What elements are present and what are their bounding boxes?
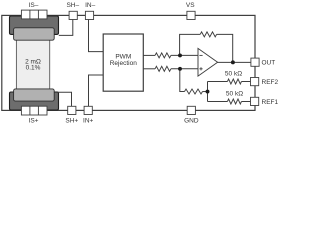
svg-text:IN+: IN+ [83, 117, 94, 124]
pin IN+ (bottom) [84, 106, 92, 114]
device boundary box [2, 15, 255, 110]
svg-text:SH–: SH– [66, 2, 79, 9]
pin VS (top) [187, 11, 195, 19]
svg-text:IS+: IS+ [29, 118, 39, 125]
svg-text:REF1: REF1 [262, 99, 279, 106]
wire op-amp output to OUT pin [218, 61, 251, 63]
pin GND (bottom) [187, 106, 195, 114]
svg-text:0.1%: 0.1% [26, 65, 41, 72]
wire feedback right vertical to output [217, 34, 233, 62]
shunt resistor RS element body (2 mOhm 0.1%) [16, 34, 49, 95]
wire non-inverting node down to R2 [180, 69, 185, 92]
resistor R3 (inverting input) [155, 53, 171, 58]
node divider junction [206, 90, 210, 94]
wire R3 to op-amp inverting input [171, 54, 198, 56]
pin SH- (top) [69, 11, 77, 19]
pin SH+ (bottom) [68, 106, 76, 114]
shunt resistor RS top pad (IS- terminal) [10, 16, 59, 34]
wire PWM block to R1 (non-inverting path) [143, 68, 155, 70]
wire divider to 50k REF1 resistor [208, 101, 228, 103]
wire divider to 50k REF2 resistor [208, 81, 228, 83]
svg-text:SH+: SH+ [65, 117, 78, 124]
IS+ pin boxes [21, 106, 47, 115]
op-amp plus sign [199, 67, 202, 70]
svg-text:VS: VS [186, 2, 195, 9]
resistor R1 (non-inverting input) [155, 66, 171, 71]
wire feedback left vertical [180, 34, 201, 55]
wire shunt top sense to SH- pin [59, 15, 73, 35]
resistor R2 (matching) [185, 89, 203, 94]
wire R1 to op-amp non-inverting input [171, 68, 198, 70]
wire IN- pin to PWM block input [89, 15, 104, 51]
pin REF1 (right) [251, 97, 259, 105]
shunt RS top end cap [14, 28, 55, 40]
wire IN+ pin to PWM block input [89, 75, 104, 110]
svg-text:REF2: REF2 [262, 79, 279, 86]
svg-text:50 kΩ: 50 kΩ [226, 91, 243, 98]
pin OUT (right) [251, 58, 259, 66]
resistor 50 kOhm to REF1 [227, 99, 241, 104]
node non-inverting input junction [178, 67, 182, 71]
svg-text:GND: GND [184, 117, 199, 124]
IS- pin boxes [21, 10, 47, 19]
op-amp U1 [198, 48, 218, 76]
PWM Rejection block [103, 34, 143, 91]
resistor R4 feedback [200, 32, 216, 37]
resistor 50 kOhm to REF2 [227, 79, 241, 84]
pin IN- (top) [85, 11, 93, 19]
wire R2 to divider node [203, 91, 208, 93]
svg-text:OUT: OUT [262, 60, 276, 67]
wire PWM block to R3 (inverting path) [143, 54, 155, 56]
wire 50k to REF1 pin [242, 101, 251, 103]
node output junction [231, 60, 235, 64]
wire 50k to REF2 pin [242, 81, 251, 83]
wire divider bracket [207, 82, 209, 102]
pin REF2 (right) [251, 78, 259, 86]
shunt resistor RS bottom pad (IS+ terminal) [10, 92, 59, 110]
shunt RS bottom end cap [14, 89, 55, 101]
svg-text:50 kΩ: 50 kΩ [225, 70, 242, 77]
op-amp minus sign [199, 54, 202, 56]
wire shunt bottom sense to SH+ pin [58, 92, 72, 110]
node inverting input junction [178, 53, 182, 57]
svg-text:Rejection: Rejection [110, 60, 137, 67]
svg-text:IN–: IN– [85, 2, 96, 9]
svg-text:IS–: IS– [29, 2, 39, 9]
